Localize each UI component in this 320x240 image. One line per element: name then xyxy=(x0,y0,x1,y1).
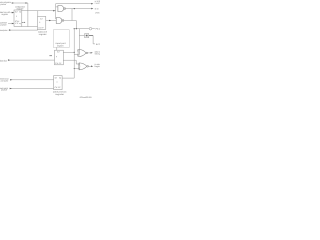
node L7 read polarity label xyxy=(0,87,9,92)
wire L2 to register D input xyxy=(11,12,15,14)
wire pad to pin label xyxy=(92,28,95,30)
register U6 polarity inversion register box xyxy=(54,76,63,90)
node junction dot pad left xyxy=(74,28,75,29)
svg-text:register: register xyxy=(39,33,47,36)
svg-text:VSS: VSS xyxy=(95,11,100,14)
svg-text:INT: INT xyxy=(96,43,100,46)
node small mark above bus xyxy=(49,54,52,57)
register U4 input port register box xyxy=(55,50,64,65)
wire I/O pad net xyxy=(74,28,89,30)
node arrowhead G1 output xyxy=(91,8,93,10)
node junction arrow on L1 wire xyxy=(25,2,27,4)
wire U3 to U4 vertical xyxy=(56,47,58,50)
svg-text:port pulse: port pulse xyxy=(1,80,9,83)
svg-text:CK FF: CK FF xyxy=(38,27,44,30)
wire G1 output xyxy=(66,8,93,10)
register U1 configuration register box xyxy=(14,10,22,26)
wire L1 to configuration register clock xyxy=(12,3,38,27)
wire vertical branch to gate inputs xyxy=(55,4,57,19)
node arrowhead L1 xyxy=(12,2,14,4)
node G4 output label xyxy=(95,63,101,68)
node arrowhead L2 xyxy=(12,12,14,14)
node junction dot rail at input register line xyxy=(74,52,75,53)
node arrowhead L6 xyxy=(10,79,12,81)
node U2 label output port register xyxy=(38,30,47,36)
svg-text:register: register xyxy=(55,93,64,96)
svg-text:pulse: pulse xyxy=(1,89,8,92)
node right edge label VDD drive xyxy=(95,0,101,5)
wire gate1 upper input stub xyxy=(56,6,58,8)
wire G1 branch down to G2 output xyxy=(71,9,73,21)
svg-text:pulse: pulse xyxy=(1,23,8,26)
svg-text:register: register xyxy=(17,7,24,10)
register U2 output port register box xyxy=(38,17,46,30)
node I/O pad circle xyxy=(89,27,92,30)
wire U6 output up to gate4 xyxy=(62,77,74,79)
wire L6 to polarity register D xyxy=(10,79,54,81)
svg-text:register: register xyxy=(2,13,9,16)
svg-text:FF q: FF q xyxy=(15,22,20,25)
svg-text:P-ch FET: P-ch FET xyxy=(95,2,100,5)
wire rail branch to gate3 lower input xyxy=(74,53,79,55)
node arrowhead G4 xyxy=(91,66,93,68)
wire gate2 upper input stub xyxy=(55,18,58,20)
nand gate G2 xyxy=(56,18,64,24)
xnor gate G4 xyxy=(78,63,88,70)
svg-text:output port: output port xyxy=(38,30,47,33)
svg-text:CK FF: CK FF xyxy=(55,86,62,89)
svg-text:P0.x: P0.x xyxy=(96,28,100,31)
buffer U5 input buffer box xyxy=(85,34,89,38)
wire G4 output xyxy=(89,65,92,67)
wire L7 to polarity register CK xyxy=(10,88,54,90)
svg-text:register: register xyxy=(57,44,64,47)
wire U2 Q to gate2 xyxy=(46,20,57,22)
node junction dot rail gate4 branch xyxy=(74,68,75,69)
nand gate G1 xyxy=(58,6,66,12)
svg-text:shift reg: shift reg xyxy=(95,53,100,56)
node arrowhead L4 xyxy=(9,29,11,31)
wire branch from Q wire down to output register xyxy=(37,11,39,17)
node junction dot pad mid xyxy=(76,28,77,29)
svg-text:002aaa832 664: 002aaa832 664 xyxy=(80,96,92,99)
svg-text:read pulse: read pulse xyxy=(0,29,8,32)
node arrowhead bypass xyxy=(91,3,93,5)
svg-text:CK FF: CK FF xyxy=(55,62,62,65)
node L4 read pulse label xyxy=(0,29,8,32)
node arrowhead G3 xyxy=(91,52,93,54)
wire pad feedback rail down xyxy=(73,29,75,78)
wire L3 to register CK xyxy=(8,23,14,25)
node L1 write configuration pulse label xyxy=(0,1,12,6)
node arrowhead L3 xyxy=(12,23,14,25)
wire buffer output to interrupt xyxy=(89,35,93,37)
node junction dot G1 output xyxy=(74,8,75,9)
wire U1 Q-bar stub xyxy=(22,21,24,23)
node L2 data from shift register label xyxy=(0,11,10,16)
node L6 read input register label xyxy=(0,78,9,83)
node U6 label polarity inversion register xyxy=(53,91,67,96)
wire L5 data bus to input register xyxy=(8,59,55,61)
wire rail branch to gate4 lower input xyxy=(74,68,79,70)
wire U1 Q output to gates xyxy=(22,10,56,12)
node L3 write pulse label xyxy=(0,21,8,26)
wire U4 upper output xyxy=(63,51,74,53)
node arrowhead into gate2 xyxy=(49,20,51,22)
wire U4 lower output to gate4 xyxy=(63,60,79,64)
node arrowhead on Q wire xyxy=(53,10,55,12)
svg-text:logic: logic xyxy=(95,65,100,68)
svg-text:pulse: pulse xyxy=(1,3,7,6)
node L5 data bus label xyxy=(0,59,8,62)
node U1 label configuration register xyxy=(15,5,26,10)
svg-text:data bus: data bus xyxy=(0,59,8,62)
xnor gate G3 xyxy=(78,49,88,56)
wire G2 output to pad rail xyxy=(64,21,77,29)
node G3 output label data to shift register xyxy=(95,51,101,56)
wire bypass rail to right edge xyxy=(56,3,93,5)
svg-text:N-ch: N-ch xyxy=(95,7,99,10)
block U3 output port box xyxy=(53,30,69,48)
node arrowhead L7 xyxy=(10,88,12,90)
wire G3 output xyxy=(88,52,92,54)
wire L4 to output register clock xyxy=(9,28,38,31)
node right edge label N drive xyxy=(95,7,101,14)
wire input buffer rail xyxy=(78,29,81,52)
wire rail to input buffer xyxy=(79,35,84,37)
node arrowhead L5 xyxy=(8,59,10,61)
